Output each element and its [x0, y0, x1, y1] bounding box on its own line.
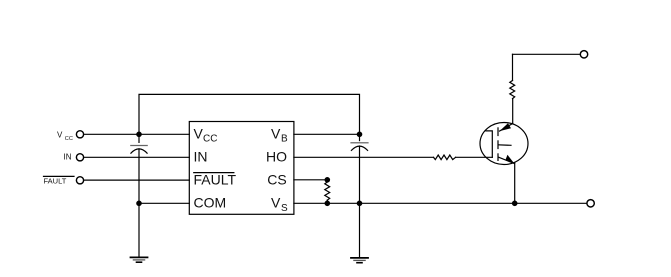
capacitor C2 — [351, 143, 368, 151]
svg-text:IN: IN — [194, 148, 208, 164]
junction — [325, 177, 331, 183]
wire — [514, 163, 516, 204]
junction — [325, 201, 331, 207]
wire — [326, 200, 328, 203]
terminal IN — [76, 154, 83, 161]
svg-text:IN: IN — [64, 153, 72, 162]
svg-text:V: V — [271, 194, 281, 210]
wire — [294, 202, 587, 204]
pin VB — [271, 125, 288, 144]
junction — [136, 201, 142, 207]
wire — [456, 156, 493, 158]
resistor R1 — [434, 155, 456, 160]
svg-text:V: V — [194, 125, 204, 141]
capacitor C1 — [131, 146, 147, 154]
terminal top-right — [580, 51, 587, 58]
svg-text:CC: CC — [65, 136, 73, 142]
svg-text:HO: HO — [266, 148, 287, 164]
wire — [359, 146, 361, 257]
svg-text:CS: CS — [267, 171, 286, 187]
ground — [351, 258, 368, 263]
wire — [326, 180, 328, 182]
IC U1 gate driver — [189, 122, 294, 215]
junction — [357, 201, 363, 207]
wire — [84, 179, 190, 181]
wire — [512, 54, 514, 80]
ground — [131, 257, 148, 262]
wire — [138, 149, 140, 257]
terminal VCC — [76, 131, 83, 138]
svg-text:S: S — [281, 203, 288, 214]
wire — [513, 53, 581, 55]
wire — [359, 134, 361, 140]
node FAULT overline (terminal) — [44, 175, 75, 177]
junction — [357, 132, 363, 138]
terminal FAULT — [76, 177, 83, 184]
transistor Q1 — [480, 123, 528, 165]
junction — [136, 132, 142, 138]
pin VCC — [194, 125, 218, 144]
svg-text:V: V — [57, 130, 63, 139]
pin VS — [271, 194, 288, 214]
junction — [512, 201, 518, 207]
svg-text:CC: CC — [203, 134, 217, 145]
svg-text:FAULT: FAULT — [194, 171, 237, 187]
wire — [138, 134, 140, 142]
wire — [294, 133, 360, 135]
wire — [139, 202, 189, 204]
wire — [139, 94, 360, 134]
wire — [84, 133, 190, 135]
wire — [294, 179, 327, 181]
resistor R3 — [510, 81, 515, 99]
wire — [84, 156, 190, 158]
svg-text:COM: COM — [194, 194, 227, 210]
terminal bottom-right — [587, 200, 594, 207]
node VCC label — [57, 130, 73, 141]
svg-text:FAULT: FAULT — [44, 176, 67, 185]
wire — [512, 99, 514, 124]
svg-text:V: V — [271, 125, 281, 141]
svg-text:B: B — [281, 134, 288, 145]
resistor R2 — [325, 182, 330, 200]
wire — [294, 156, 434, 158]
pin FAULT overline (IC) — [194, 172, 234, 174]
